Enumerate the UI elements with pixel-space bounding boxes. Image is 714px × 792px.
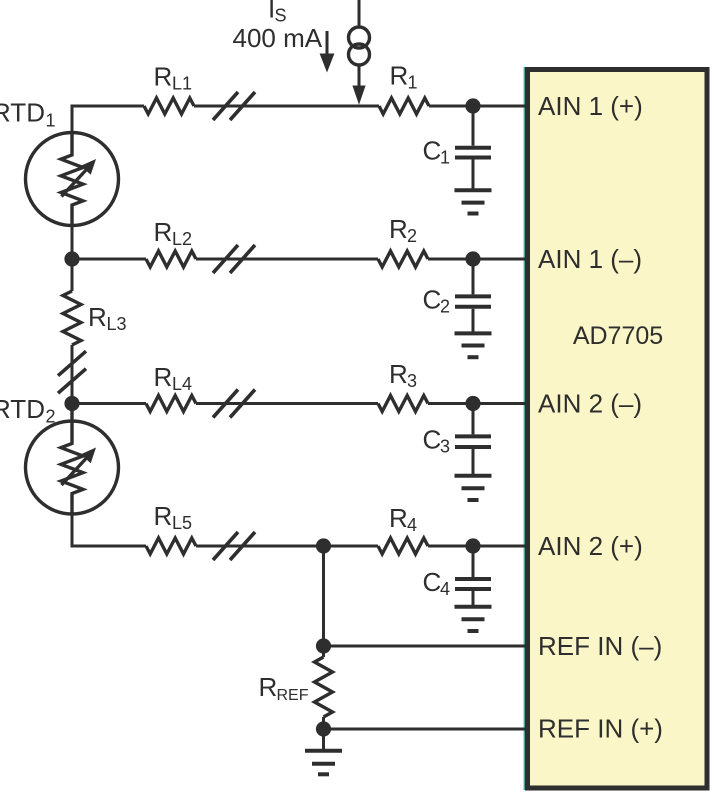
svg-text:R: R xyxy=(389,503,408,533)
break marks row4 xyxy=(213,532,255,560)
label RL1 xyxy=(154,62,193,94)
label RL5 xyxy=(154,501,193,533)
break marks row1 xyxy=(213,92,255,120)
svg-text:RTD: RTD xyxy=(0,394,45,424)
svg-text:R: R xyxy=(389,359,408,389)
arrow: current source output to node xyxy=(352,65,365,105)
svg-text:R: R xyxy=(88,302,107,332)
break marks row2 xyxy=(213,245,255,273)
wire row1 middle xyxy=(194,105,379,108)
resistor RL2 xyxy=(146,251,196,267)
ground (C3) xyxy=(455,476,492,500)
label C1 xyxy=(423,136,451,168)
svg-text:L5: L5 xyxy=(172,513,192,533)
node: left junction row2 xyxy=(64,251,79,266)
capacitor C1 xyxy=(455,106,491,190)
svg-text:2: 2 xyxy=(46,407,56,427)
break marks row3 xyxy=(213,390,255,418)
ground (C2) xyxy=(455,333,492,357)
svg-text:L3: L3 xyxy=(107,314,127,334)
label R1 xyxy=(390,61,418,93)
svg-text:R: R xyxy=(154,217,173,247)
capacitor C4 xyxy=(455,546,491,607)
node: left junction row3 xyxy=(64,396,79,411)
svg-text:L1: L1 xyxy=(172,74,192,94)
svg-text:4: 4 xyxy=(407,515,417,535)
svg-text:3: 3 xyxy=(407,371,417,391)
ground (C4) xyxy=(455,607,492,631)
wire: RTD2 bottom to row4 xyxy=(71,514,74,546)
arrow: IS current direction xyxy=(320,31,335,73)
wire row2 middle xyxy=(196,258,378,261)
node: C1 junction xyxy=(465,98,480,113)
svg-text:AIN 1 (–): AIN 1 (–) xyxy=(538,244,642,274)
resistor RL4 xyxy=(146,396,196,412)
svg-text:REF IN (–): REF IN (–) xyxy=(538,631,662,661)
wire: RTD1 top corner to RL1 xyxy=(72,106,144,134)
label C3 xyxy=(423,425,451,457)
wire: REF node to ground xyxy=(322,729,325,751)
label RTD1 xyxy=(0,98,56,131)
wire row3 into pin AIN 2 (-) xyxy=(428,402,527,405)
label RL2 xyxy=(154,217,193,249)
label RL3 xyxy=(88,302,127,334)
svg-text:R: R xyxy=(389,214,408,244)
svg-text:REF IN (+): REF IN (+) xyxy=(538,714,663,744)
wire: REF IN (+) row xyxy=(324,728,528,731)
label C4 xyxy=(423,567,451,599)
resistor R1 xyxy=(379,98,429,114)
svg-text:C: C xyxy=(423,285,442,315)
RTD RTD2 xyxy=(26,404,119,515)
wire row1 into pin AIN 1 (+) xyxy=(429,105,527,108)
svg-text:R: R xyxy=(259,672,278,702)
svg-text:3: 3 xyxy=(440,437,450,457)
wire row4 into pin AIN 2 (+) xyxy=(428,545,527,548)
node: C4 junction xyxy=(465,538,480,553)
capacitor C2 xyxy=(455,259,491,333)
node: C2 junction xyxy=(465,251,480,266)
wire row3 left xyxy=(72,402,146,405)
svg-text:4: 4 xyxy=(440,579,450,599)
svg-text:RTD: RTD xyxy=(0,98,45,128)
label RTD2 xyxy=(0,394,56,427)
svg-text:R: R xyxy=(154,362,173,392)
wire: REF IN (-) row xyxy=(324,645,528,648)
svg-text:AIN 2 (+): AIN 2 (+) xyxy=(538,531,643,561)
wire: row4 branch down to REF IN (-) xyxy=(322,546,325,646)
svg-text:R: R xyxy=(390,61,409,91)
label R2 xyxy=(389,214,417,246)
node: REF IN (+) junction xyxy=(316,721,331,736)
wire row4 middle xyxy=(196,545,378,548)
svg-text:L2: L2 xyxy=(172,229,192,249)
svg-text:L4: L4 xyxy=(172,374,192,394)
IC U1 AD7705 body xyxy=(524,67,707,790)
svg-text:R: R xyxy=(154,62,173,92)
capacitor C3 xyxy=(455,404,491,476)
resistor RREF (vertical) xyxy=(315,646,333,729)
svg-text:2: 2 xyxy=(407,226,417,246)
wire: row4 left corner xyxy=(72,514,146,546)
wire: supply feed into current source xyxy=(358,0,361,28)
svg-text:AIN 2 (–): AIN 2 (–) xyxy=(538,389,642,419)
label IS xyxy=(268,0,287,26)
label C2 xyxy=(423,285,451,317)
svg-text:R: R xyxy=(154,501,173,531)
wire row3 middle xyxy=(196,402,378,405)
svg-text:REF: REF xyxy=(277,687,309,704)
wire row2 left xyxy=(72,258,146,261)
resistor RL5 xyxy=(146,538,196,554)
label R3 xyxy=(389,359,417,391)
svg-text:1: 1 xyxy=(408,73,418,93)
resistor RL1 xyxy=(144,98,194,114)
current source IS xyxy=(349,27,370,65)
svg-text:400 mA: 400 mA xyxy=(233,23,323,53)
node: row4 branch junction xyxy=(316,538,331,553)
svg-text:1: 1 xyxy=(440,148,450,168)
svg-text:AIN 1 (+): AIN 1 (+) xyxy=(538,91,643,121)
label R4 xyxy=(389,503,417,535)
wire row2 into pin AIN 1 (-) xyxy=(428,258,527,261)
svg-text:C: C xyxy=(423,425,442,455)
node: C3 junction xyxy=(465,396,480,411)
ground (C1) xyxy=(455,190,492,213)
label RL4 xyxy=(154,362,193,394)
break marks left wire xyxy=(58,351,86,393)
resistor RL3 (vertical) xyxy=(63,259,81,404)
resistor R3 xyxy=(378,396,428,412)
svg-text:AD7705: AD7705 xyxy=(573,322,663,350)
svg-text:1: 1 xyxy=(46,111,56,131)
svg-text:C: C xyxy=(423,136,442,166)
label RREF xyxy=(259,672,309,704)
node: REF IN (-) junction xyxy=(316,638,331,653)
svg-text:2: 2 xyxy=(440,297,450,317)
svg-text:C: C xyxy=(423,567,442,597)
resistor R4 xyxy=(378,538,428,554)
RTD RTD1 xyxy=(26,133,119,226)
ground (RREF) xyxy=(305,751,342,775)
wire: RTD1 bottom to row2 node xyxy=(71,226,74,260)
resistor R2 xyxy=(378,251,428,267)
